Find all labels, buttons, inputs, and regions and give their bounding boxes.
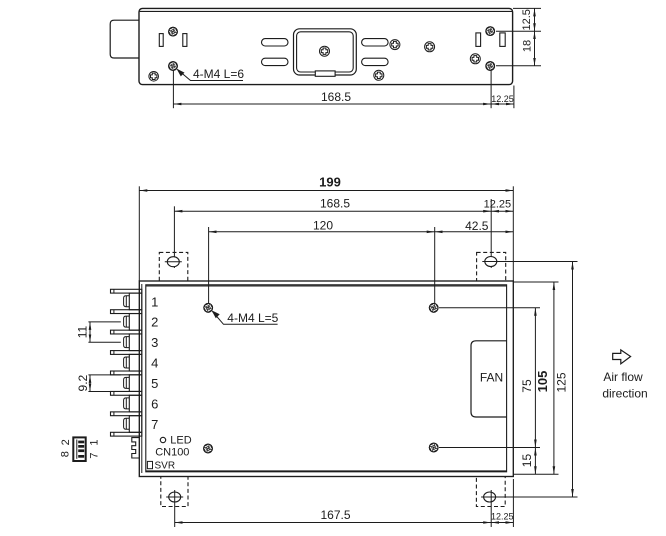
- svg-text:12.25: 12.25: [491, 94, 514, 104]
- svg-text:8: 8: [60, 451, 72, 457]
- svg-text:125: 125: [555, 372, 569, 392]
- svg-text:75: 75: [520, 379, 534, 393]
- svg-text:3: 3: [151, 335, 158, 350]
- svg-text:CN100: CN100: [155, 447, 189, 459]
- svg-text:15: 15: [520, 454, 534, 468]
- svg-text:6: 6: [151, 396, 158, 411]
- svg-text:12.25: 12.25: [491, 512, 514, 522]
- svg-text:105: 105: [535, 371, 550, 393]
- svg-text:7: 7: [151, 417, 158, 432]
- svg-text:11: 11: [75, 325, 89, 338]
- svg-text:direction: direction: [602, 386, 647, 400]
- svg-text:199: 199: [319, 175, 341, 190]
- svg-text:SVR: SVR: [155, 460, 176, 471]
- svg-text:9.2: 9.2: [76, 374, 90, 391]
- svg-text:120: 120: [313, 218, 333, 232]
- svg-text:4-M4 L=5: 4-M4 L=5: [227, 311, 278, 325]
- svg-text:2: 2: [60, 439, 72, 445]
- svg-text:7: 7: [88, 452, 100, 458]
- svg-text:LED: LED: [170, 435, 191, 447]
- svg-text:4: 4: [151, 356, 158, 371]
- svg-text:FAN: FAN: [480, 370, 503, 384]
- svg-text:168.5: 168.5: [320, 197, 350, 211]
- svg-text:5: 5: [151, 376, 158, 391]
- svg-text:167.5: 167.5: [320, 508, 350, 522]
- svg-text:168.5: 168.5: [321, 90, 351, 104]
- svg-text:18: 18: [521, 40, 533, 52]
- svg-text:12.5: 12.5: [521, 9, 533, 30]
- svg-text:4-M4 L=6: 4-M4 L=6: [193, 67, 244, 81]
- svg-text:Air flow: Air flow: [603, 370, 643, 384]
- svg-text:42.5: 42.5: [465, 219, 489, 233]
- svg-text:1: 1: [88, 439, 100, 445]
- svg-text:2: 2: [151, 315, 158, 330]
- svg-text:12.25: 12.25: [484, 199, 512, 211]
- svg-text:1: 1: [151, 294, 158, 309]
